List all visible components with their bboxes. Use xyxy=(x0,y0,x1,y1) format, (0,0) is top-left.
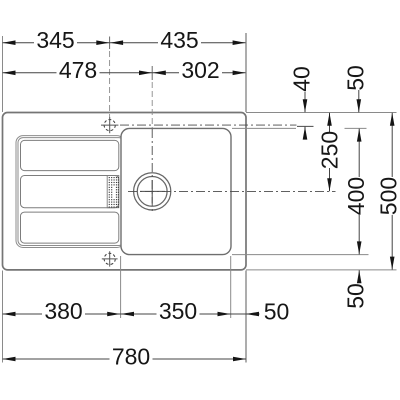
overflow grate dots xyxy=(109,177,119,208)
centerline vertical through drain xyxy=(151,129,153,214)
col 40 arrows xyxy=(303,99,308,112)
svg-text:478: 478 xyxy=(59,57,97,83)
col 400 arrows xyxy=(357,129,362,142)
svg-text:250: 250 xyxy=(317,131,343,169)
dimension line col 500 xyxy=(391,113,393,270)
svg-text:40: 40 xyxy=(289,66,315,92)
row1 arrows xyxy=(3,40,16,45)
svg-text:302: 302 xyxy=(181,57,219,83)
extension line bowl top right xyxy=(232,127,296,129)
tap hole top dashed circle xyxy=(104,120,115,131)
svg-text:345: 345 xyxy=(36,27,74,53)
extension line sink bottom right xyxy=(246,269,397,271)
svg-text:435: 435 xyxy=(160,27,198,53)
drain outer circle xyxy=(134,173,171,210)
extension dashed drain vertical xyxy=(151,82,153,128)
drainer groove 1 xyxy=(21,140,119,170)
extension dashed tap vertical xyxy=(109,51,111,117)
row3 arrows xyxy=(3,312,16,317)
svg-text:350: 350 xyxy=(159,298,197,324)
svg-text:50: 50 xyxy=(343,65,369,91)
drainer rim outer line xyxy=(16,136,124,248)
main bowl xyxy=(121,128,231,254)
extension line right edge top xyxy=(245,33,247,112)
dimension texts xyxy=(36,27,400,370)
extension line right edge bottom xyxy=(245,271,247,363)
white-out boxes under dimension texts xyxy=(34,32,397,365)
extension line left edge bottom xyxy=(2,271,4,363)
tap hole top cross xyxy=(101,117,118,133)
centerline horizontal through drain xyxy=(128,190,336,192)
drain inner circle xyxy=(137,177,167,207)
dimension line col 50 top xyxy=(358,90,360,112)
extension tick drain vertical xyxy=(151,66,153,80)
drainer rim inner line xyxy=(18,138,124,246)
extension tick tap vertical xyxy=(109,37,111,50)
col 50 top arrow xyxy=(357,99,362,112)
svg-text:50: 50 xyxy=(264,299,290,325)
extension line bowl left bottom xyxy=(120,256,122,318)
dimension line col 400 xyxy=(358,129,360,255)
dimension line row 478/302 xyxy=(3,72,246,74)
sink outer outline xyxy=(3,113,247,270)
svg-text:380: 380 xyxy=(44,298,82,324)
centerline tick for 40 dim xyxy=(297,125,314,127)
col 250 arrows xyxy=(327,113,332,126)
row2 arrows xyxy=(3,71,16,76)
centerline horizontal through tap holes xyxy=(120,124,297,126)
dimension line row 380/350/50 xyxy=(3,313,260,315)
drainer groove 2 xyxy=(21,176,119,208)
col 500 arrows xyxy=(390,113,395,126)
svg-text:400: 400 xyxy=(343,177,369,215)
tap hole bottom dashed circle xyxy=(104,253,115,264)
extension line sink top right xyxy=(246,112,397,114)
drain solid horizontal crosshair xyxy=(140,190,165,192)
col 50 bottom arrow xyxy=(357,270,362,283)
svg-text:50: 50 xyxy=(343,283,369,309)
dimension line row 345/435 xyxy=(3,42,246,44)
extension line left edge top xyxy=(2,36,4,112)
dimension line col 50 bottom xyxy=(358,270,360,282)
dimension line col 250 xyxy=(329,113,331,191)
drain solid vertical crosshair xyxy=(151,180,153,204)
drainer groove 3 xyxy=(21,212,119,243)
svg-text:500: 500 xyxy=(376,177,400,215)
overflow grate dotted rect xyxy=(107,176,119,208)
row4 arrows xyxy=(3,357,16,362)
svg-text:780: 780 xyxy=(112,344,150,370)
dimension line row 780 xyxy=(3,358,247,360)
extension line bowl bottom right xyxy=(232,254,369,256)
extension tick bowl top for 50 dim xyxy=(345,127,367,129)
arrows (filled) xyxy=(3,40,395,361)
tap hole bottom cross xyxy=(102,251,118,266)
dimension line col 40 xyxy=(304,92,306,139)
extension line bowl right bottom xyxy=(230,256,232,318)
